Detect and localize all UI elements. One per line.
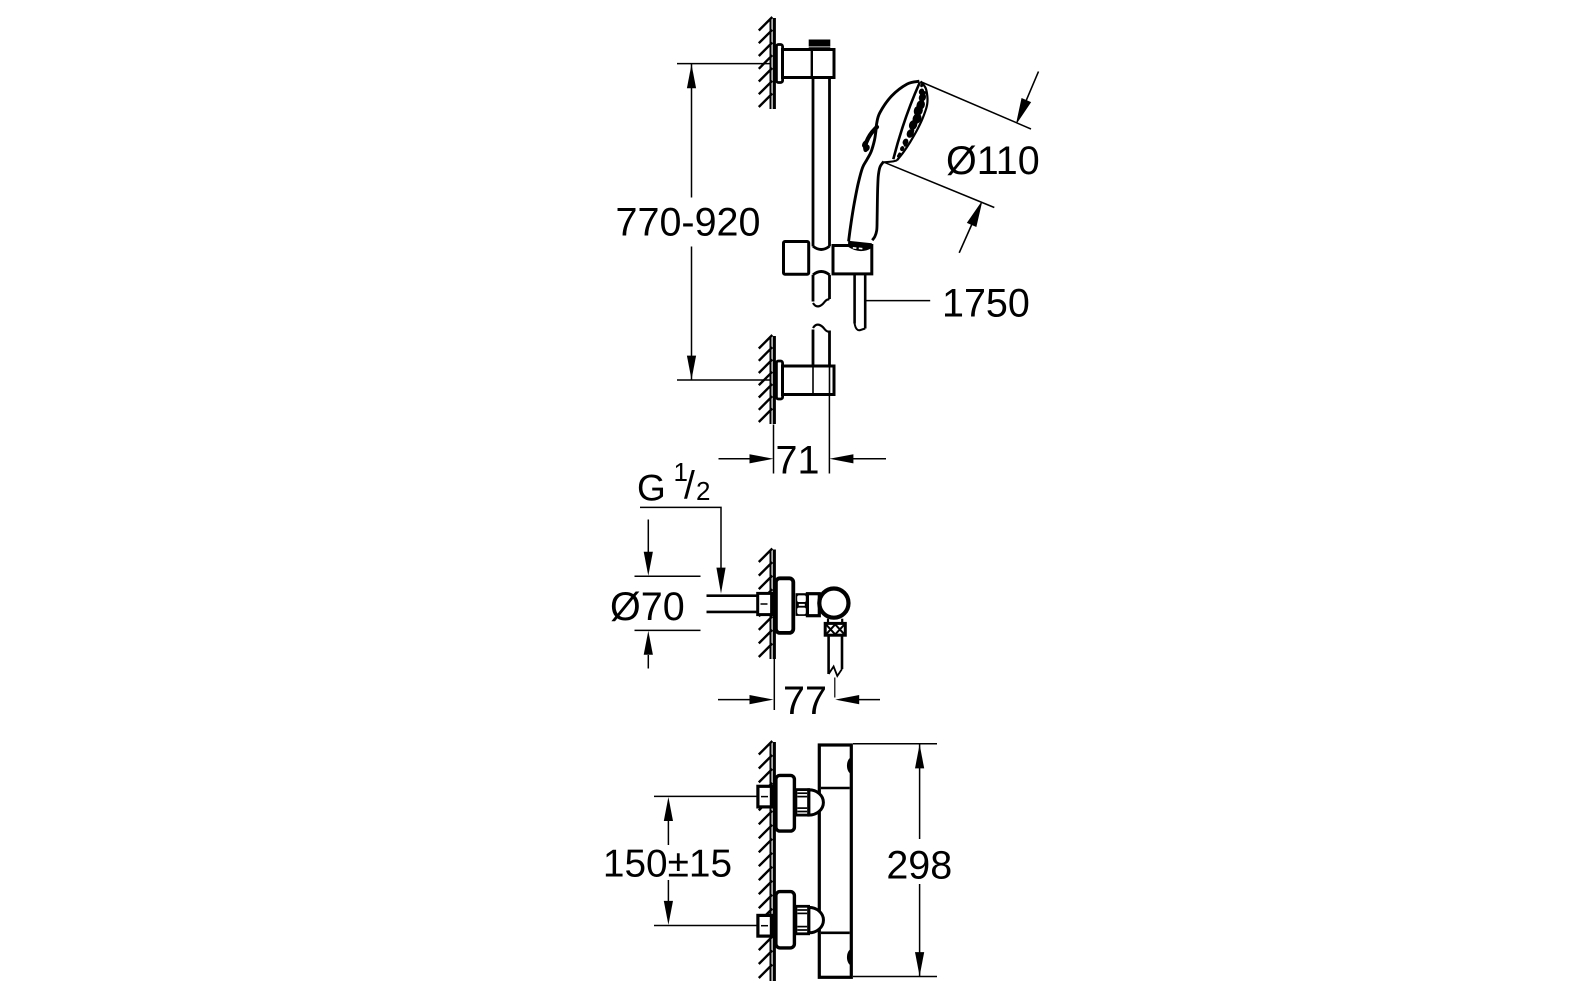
lower dome [809,907,824,932]
dimension O110 upper arrow [1017,72,1039,123]
dimension O110 lower arrow [959,203,981,253]
nut centerline dash [761,603,768,605]
screw bump lower [847,949,851,966]
top wall bracket body [783,50,835,78]
hand shower face inner edge [893,82,920,159]
wall (lower segment) [771,336,775,424]
rail lines through lower bracket [813,366,830,395]
slider cradle [833,246,872,274]
top bracket divider [811,50,813,78]
hand shower face rim [897,81,928,160]
lower union escutcheon [776,892,795,948]
dimension O70 extension lines [635,576,701,630]
wall hatching (top segment) [759,17,773,107]
rail segment below slider [813,275,830,302]
valve escutcheon [776,578,793,633]
ball joint [819,589,848,618]
svg-text:770-920: 770-920 [616,201,761,245]
slider knob [784,242,809,275]
supply pipe stub [707,596,758,612]
dimension 298 extension lines [853,744,937,977]
lower supply hex nut [758,915,772,936]
rail upper segment [813,78,830,247]
dimension 770-920 line + arrows [691,64,693,380]
dimension 770-920 bottom extension line [677,379,770,381]
thermostat body [819,745,851,977]
leader 1750 [866,300,930,302]
hand shower head back outline + handle left edge [849,81,920,241]
lower union nut [796,906,809,934]
svg-text:/: / [684,465,695,508]
body seam upper [821,787,850,790]
hose centerline [834,678,836,698]
mode lever (dark teardrop) [865,127,877,150]
wall hatching (bottom) [759,741,773,978]
rail cut arc at slider top [813,246,830,249]
svg-text:Ø70: Ø70 [610,585,685,629]
top wall bracket escutcheon [776,45,782,83]
wall hatching (middle) [759,549,773,658]
handle cone end cap (dark) [848,241,872,251]
dimension 150+-15 arrows [664,797,673,925]
svg-text:1750: 1750 [942,282,1030,326]
svg-text:G: G [637,468,666,509]
upper union nut [796,790,809,816]
rail top cap [809,40,831,47]
wall (bottom) [771,742,775,981]
spray nozzle speckles [897,83,928,158]
wall (middle) [771,550,775,660]
G1/2 leader line [640,507,721,570]
svg-text:71: 71 [776,439,820,483]
lower wall bracket escutcheon [776,361,782,399]
rail segment above lower bracket [813,330,830,367]
upper supply hex nut [758,786,772,807]
neck below ball [828,619,842,624]
dimension O70 arrows [647,520,649,554]
rail cut arc at slider bottom [813,272,830,275]
supply hex nut at wall [758,593,772,614]
svg-text:2: 2 [696,476,710,506]
rail break (lower end squiggle) [813,325,830,332]
upper dome [809,790,824,815]
dimension 71 line + arrows [719,458,887,460]
wall hatching (lower segment) [759,335,773,422]
hand shower handle right edge [872,161,884,240]
dimension 77 extension line (wall) [773,659,775,710]
shower hose [855,275,866,329]
dimension O110 extension lines [884,82,1031,208]
lower wall bracket body [783,366,835,395]
mode lever end blob [862,143,871,152]
svg-text:150±15: 150±15 [603,843,732,886]
valve inlet boss [807,594,819,616]
mode lever nub [861,139,870,149]
screw bump upper [847,757,851,774]
svg-text:298: 298 [886,843,952,887]
hose break end [829,667,842,677]
dimension 71 extension lines [774,396,830,474]
wall (top segment) [771,18,775,109]
dimension 770-920 top extension line [677,63,770,65]
cone cap white dashes [853,247,863,250]
G1/2 leader arrow [716,568,725,594]
hose stub [829,635,842,674]
face bottom edge [884,160,897,162]
body seam lower [821,931,850,934]
dimension 298 line + arrows [919,744,921,976]
rail break (upper end squiggle) [813,299,830,306]
dimension 150+-15 extension lines [654,796,758,925]
dimension 77 line + arrows [718,699,880,701]
upper union escutcheon [776,775,795,831]
knurled hose nut [825,623,845,635]
valve union nut (dark block with windows) [796,593,808,616]
svg-text:Ø110: Ø110 [946,139,1040,183]
hose break end [855,324,866,331]
svg-text:77: 77 [783,679,827,723]
